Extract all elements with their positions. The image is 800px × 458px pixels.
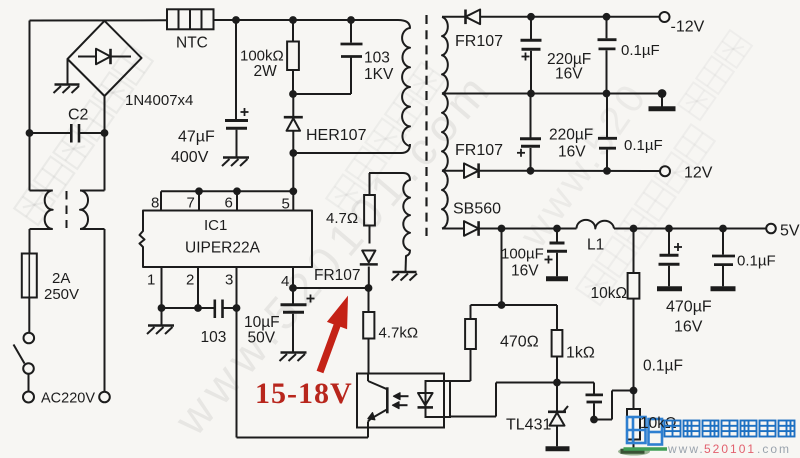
transformer secondary winding upper bbox=[442, 17, 448, 94]
label 2A bbox=[52, 270, 70, 287]
capacitor 103 (pins 2-3) bbox=[215, 300, 237, 319]
label 16V (100uF) bbox=[511, 263, 539, 280]
label NTC bbox=[176, 35, 208, 52]
wire top-left AC line bbox=[30, 20, 168, 133]
svg-text:400V: 400V bbox=[171, 149, 209, 166]
label 15-18V bbox=[255, 377, 353, 410]
wire ref to cap bbox=[557, 383, 594, 394]
label 400V bbox=[171, 149, 209, 166]
label 10kOhm (lower) bbox=[640, 415, 677, 432]
pin number 4 bbox=[281, 273, 289, 290]
ground (0.1uF 5V) bbox=[711, 286, 736, 291]
svg-text:12V: 12V bbox=[684, 165, 713, 182]
pin 1 stub bbox=[161, 267, 163, 308]
label 470uF bbox=[666, 299, 712, 316]
svg-text:10µF: 10µF bbox=[244, 314, 280, 331]
pin number 3 bbox=[225, 272, 233, 289]
node divider top bbox=[498, 301, 506, 309]
svg-text:IC1: IC1 bbox=[204, 217, 227, 234]
resistor 100k 2W bbox=[287, 42, 299, 71]
svg-text:-12V: -12V bbox=[671, 19, 705, 36]
node pin7 bbox=[195, 187, 203, 195]
label 103 (1KV) bbox=[364, 50, 390, 67]
label 220uF (-12V) bbox=[547, 51, 591, 68]
AC terminal left bbox=[23, 392, 34, 403]
ground (47uF) bbox=[222, 158, 249, 167]
wire left drop bbox=[30, 133, 53, 191]
terminal 5V bbox=[766, 224, 776, 234]
watermark url bbox=[667, 442, 791, 456]
node feedback cap bottom bbox=[590, 416, 598, 424]
node 5V takeoff bbox=[498, 225, 506, 233]
svg-text:250V: 250V bbox=[44, 286, 79, 303]
capacitor 47uF 400V bbox=[225, 108, 249, 128]
label 10kOhm (upper) bbox=[591, 285, 628, 302]
transformer secondary winding lower bbox=[442, 171, 448, 229]
terminal 12V bbox=[660, 166, 670, 176]
label 1N4007x4 bbox=[125, 92, 193, 109]
wire pin4 to FR107 node bbox=[293, 287, 369, 289]
wire pin1-pin2 link bbox=[162, 307, 215, 309]
wire pin1 to ground bbox=[161, 308, 163, 325]
diode SB560 bbox=[464, 221, 479, 236]
label 0.1uF (12V) bbox=[624, 137, 663, 154]
bridge rectifier 1N4007x4 bbox=[68, 21, 142, 96]
svg-text:16V: 16V bbox=[674, 319, 703, 336]
optocoupler LED bbox=[418, 381, 434, 417]
node 100uF 5V bbox=[553, 225, 561, 233]
resistor 10k (lower) bbox=[627, 391, 640, 450]
resistor 470R bbox=[450, 319, 476, 381]
capacitor 0.1uF (5V) bbox=[712, 229, 735, 287]
pin 2 stub bbox=[197, 267, 199, 308]
wire top bus bbox=[214, 19, 399, 21]
wire snubber link bbox=[293, 58, 351, 95]
wire drain to primary bbox=[293, 144, 410, 153]
svg-text:www.: www. bbox=[667, 442, 705, 456]
wire C2 left bbox=[30, 132, 72, 134]
wire bridge bottom bbox=[104, 96, 106, 133]
label 100uF bbox=[501, 246, 544, 263]
wire 0V rail bbox=[442, 93, 662, 95]
svg-text:2A: 2A bbox=[52, 270, 70, 287]
fuse 2A 250V bbox=[22, 254, 37, 298]
resistor 4.7R bbox=[364, 173, 375, 244]
svg-text:16V: 16V bbox=[558, 144, 586, 161]
node 0.1uF(-12V) bbox=[603, 13, 611, 21]
node pin3 cap bbox=[233, 304, 241, 312]
diode FR107 (12V) bbox=[464, 163, 479, 178]
svg-text:HER107: HER107 bbox=[306, 127, 367, 144]
label UIPER22A bbox=[185, 240, 261, 257]
common-mode choke right winding bbox=[80, 191, 88, 230]
label 0.1uF (feedback) bbox=[643, 358, 683, 375]
svg-text:520101: 520101 bbox=[704, 442, 756, 456]
label TL431 bbox=[506, 417, 551, 434]
wire 5V to divider bbox=[501, 229, 503, 306]
ground (10uF) bbox=[280, 353, 307, 362]
label 12V bbox=[684, 165, 713, 182]
node divider tap bbox=[630, 387, 638, 395]
wire -12V rail bbox=[480, 16, 659, 18]
diode HER107 bbox=[284, 94, 303, 153]
node 0.1uF 0V bbox=[603, 90, 611, 98]
svg-text:10kΩ: 10kΩ bbox=[640, 415, 677, 432]
node TL431 ref bbox=[553, 379, 561, 387]
capacitor 0.1uF (feedback) bbox=[586, 395, 604, 420]
svg-text:.com: .com bbox=[757, 442, 791, 456]
label 100kOhm bbox=[240, 48, 284, 65]
svg-text:10kΩ: 10kΩ bbox=[591, 285, 628, 302]
svg-text:3: 3 bbox=[225, 272, 233, 289]
label SB560 bbox=[453, 201, 501, 218]
svg-text:100µF: 100µF bbox=[501, 246, 544, 263]
node pin1 gnd bbox=[158, 304, 166, 312]
wire switch to AC terminal bbox=[28, 374, 30, 392]
svg-text:103: 103 bbox=[201, 329, 227, 346]
node 100k top bbox=[289, 16, 297, 24]
label 5V bbox=[780, 223, 800, 240]
svg-text:0.1µF: 0.1µF bbox=[737, 253, 776, 270]
svg-text:1KV: 1KV bbox=[364, 66, 394, 83]
capacitor 10uF 50V bbox=[281, 288, 315, 352]
wire pin5 riser bbox=[292, 153, 294, 191]
wire 47uF to ground bbox=[236, 130, 238, 157]
optocoupler body bbox=[357, 374, 444, 428]
pin 3 stub bbox=[236, 267, 238, 438]
ground (aux winding) bbox=[392, 272, 418, 281]
svg-text:L1: L1 bbox=[587, 237, 604, 254]
label 16V (-12V) bbox=[555, 66, 583, 83]
label 16V (12V) bbox=[558, 144, 586, 161]
label L1 bbox=[587, 237, 604, 254]
ground (10k lower) bbox=[618, 448, 650, 456]
svg-text:FR107: FR107 bbox=[314, 267, 361, 284]
watermark site name bbox=[665, 421, 795, 437]
svg-text:TL431: TL431 bbox=[506, 417, 551, 434]
node snubber bbox=[289, 90, 297, 98]
label 0.1uF (-12V) bbox=[621, 42, 660, 59]
node 220uF 12V bbox=[527, 167, 535, 175]
node vdd bbox=[365, 284, 373, 292]
pin number 2 bbox=[186, 272, 194, 289]
svg-text:FR107: FR107 bbox=[455, 142, 503, 159]
wire pin3 bottom run bbox=[237, 437, 369, 439]
svg-text:16V: 16V bbox=[555, 66, 583, 83]
resistor 10k (upper) bbox=[628, 229, 640, 391]
svg-text:NTC: NTC bbox=[176, 35, 208, 52]
ground (bridge) bbox=[54, 85, 80, 94]
svg-text:1: 1 bbox=[147, 272, 155, 289]
capacitor 220uF 16V (-12V) bbox=[521, 17, 542, 94]
node 0V gnd bbox=[658, 89, 667, 98]
svg-text:1N4007x4: 1N4007x4 bbox=[125, 92, 193, 109]
wire divider link bbox=[471, 305, 558, 330]
pin 4 stub bbox=[292, 267, 294, 288]
capacitor C2 bbox=[71, 124, 79, 143]
label 470Ohm bbox=[500, 334, 539, 351]
svg-text:1kΩ: 1kΩ bbox=[566, 345, 595, 362]
svg-text:AC220V: AC220V bbox=[41, 391, 95, 407]
label FR107 (12V) bbox=[455, 142, 503, 159]
switch blade bbox=[14, 345, 25, 364]
svg-text:8: 8 bbox=[151, 195, 159, 212]
label 10uF bbox=[244, 314, 280, 331]
switch terminal upper bbox=[24, 333, 35, 344]
svg-text:FR107: FR107 bbox=[455, 33, 503, 50]
switch terminal lower bbox=[23, 363, 34, 374]
transformer primary winding bbox=[398, 20, 410, 146]
AC terminal right bbox=[99, 392, 110, 403]
svg-text:0.1µF: 0.1µF bbox=[621, 42, 660, 59]
terminal -12V bbox=[660, 12, 670, 22]
node pin6 bbox=[233, 187, 241, 195]
wire 5V rail right bbox=[614, 228, 766, 230]
svg-text:C2: C2 bbox=[68, 107, 89, 124]
svg-text:470µF: 470µF bbox=[666, 299, 712, 316]
label -12V bbox=[671, 19, 705, 36]
wire 100k bottom bbox=[292, 70, 294, 94]
label FR107 (-12V) bbox=[455, 33, 503, 50]
label 16V (470uF) bbox=[674, 319, 703, 336]
label 1kOhm bbox=[566, 345, 595, 362]
choke core dashed line bbox=[66, 191, 68, 228]
svg-text:47µF: 47µF bbox=[178, 129, 215, 146]
label 0.1uF (5V) bbox=[737, 253, 776, 270]
diode FR107 (aux) bbox=[360, 251, 378, 289]
node pin2 bbox=[194, 304, 202, 312]
svg-text:50V: 50V bbox=[248, 330, 276, 347]
svg-text:SB560: SB560 bbox=[453, 201, 501, 218]
wire bridge to ground bbox=[67, 60, 69, 85]
svg-text:2W: 2W bbox=[254, 63, 278, 80]
op-amp IC1 UIPER22A box bbox=[140, 211, 313, 268]
label 2W bbox=[254, 63, 278, 80]
pin 7 stub bbox=[198, 191, 200, 210]
wire 0V to ground bbox=[661, 94, 663, 108]
svg-text:100kΩ: 100kΩ bbox=[240, 48, 284, 65]
capacitor 470uF 16V bbox=[659, 229, 683, 287]
svg-text:15-18V: 15-18V bbox=[255, 377, 353, 410]
resistor 1k bbox=[552, 330, 563, 383]
wire 47uF drop bbox=[235, 20, 237, 119]
capacitor 0.1uF (-12V) bbox=[598, 17, 617, 94]
wire secondary to FR107 top bbox=[442, 16, 466, 18]
pin 6 stub bbox=[236, 191, 238, 210]
pin number 8 bbox=[151, 195, 159, 212]
transformer auxiliary winding bbox=[369, 173, 410, 272]
node pin4 bbox=[289, 284, 297, 292]
ground (TL431) bbox=[546, 446, 570, 451]
label 4.7kOhm bbox=[379, 325, 419, 342]
pin 5 stub bbox=[292, 191, 294, 210]
node 470uF 5V bbox=[665, 225, 673, 233]
wire IC top bus bbox=[161, 190, 293, 192]
inductor L1 bbox=[577, 220, 615, 229]
node 0.1uF 12V bbox=[603, 167, 611, 175]
node drain bbox=[289, 149, 297, 157]
svg-text:103: 103 bbox=[364, 50, 390, 67]
label C2 bbox=[68, 107, 89, 124]
wire C2 right bbox=[79, 132, 105, 134]
optocoupler arrows bbox=[393, 393, 409, 409]
optocoupler phototransistor bbox=[368, 374, 387, 438]
wire fuse to switch bbox=[28, 298, 30, 333]
node 220uF(-12V) bbox=[527, 13, 535, 21]
wire secondary to SB560 bbox=[442, 228, 464, 230]
wire choke right bottom bbox=[80, 229, 105, 392]
svg-text:UIPER22A: UIPER22A bbox=[185, 240, 261, 257]
wire right drop bbox=[80, 133, 105, 191]
resistor 4.7k bbox=[363, 288, 374, 374]
svg-text:0.1µF: 0.1µF bbox=[643, 358, 683, 375]
label HER107 bbox=[306, 127, 367, 144]
node 47uF top bbox=[232, 16, 240, 24]
node 10k 5V bbox=[630, 225, 638, 233]
wire 100k top bbox=[292, 20, 294, 42]
label IC1 bbox=[204, 217, 227, 234]
node C2 right bbox=[101, 129, 109, 137]
wire divider tap zigzag bbox=[594, 391, 634, 420]
node pin5 bbox=[289, 187, 297, 195]
wire secondary to FR107 mid bbox=[442, 170, 464, 172]
node 220uF 0V bbox=[527, 90, 535, 98]
svg-text:220µF: 220µF bbox=[549, 127, 593, 144]
label 47uF bbox=[178, 129, 215, 146]
label 103 (pins 2-3) bbox=[201, 329, 227, 346]
capacitor 100uF 16V bbox=[545, 229, 568, 277]
svg-text:4.7Ω: 4.7Ω bbox=[326, 210, 358, 227]
node 103 top bbox=[347, 16, 355, 24]
label 4.7Ohm bbox=[326, 210, 358, 227]
pin number 7 bbox=[187, 195, 195, 212]
pin number 5 bbox=[282, 196, 290, 213]
pin 8 stub bbox=[160, 191, 162, 210]
transformer secondary winding middle bbox=[442, 94, 448, 171]
svg-text:4: 4 bbox=[281, 273, 289, 290]
label 220uF (12V) bbox=[549, 127, 593, 144]
label AC220V bbox=[41, 391, 95, 407]
thermistor NTC bbox=[167, 9, 214, 29]
node C2 left bbox=[26, 129, 34, 137]
optocoupler LED box bbox=[426, 381, 451, 417]
svg-text:6: 6 bbox=[225, 195, 233, 212]
svg-text:16V: 16V bbox=[511, 263, 539, 280]
label 250V bbox=[44, 286, 79, 303]
svg-text:4.7kΩ: 4.7kΩ bbox=[379, 325, 419, 342]
transformer core dashed line bbox=[425, 15, 427, 236]
diode FR107 (-12V) bbox=[466, 10, 481, 25]
svg-text:7: 7 bbox=[187, 195, 195, 212]
wire choke left bottom bbox=[30, 229, 53, 254]
wire ref to opto bbox=[450, 383, 557, 417]
pin number 1 bbox=[147, 272, 155, 289]
svg-text:0.1µF: 0.1µF bbox=[624, 137, 663, 154]
capacitor 103 1KV bbox=[341, 20, 363, 57]
common-mode choke left winding bbox=[45, 191, 53, 230]
red arrow 15-18V bbox=[317, 296, 348, 374]
wire 12V rail bbox=[479, 170, 660, 172]
ground (470uF) bbox=[657, 286, 682, 291]
svg-text:5V: 5V bbox=[780, 223, 800, 240]
node 0.1uF 5V bbox=[719, 225, 727, 233]
label 50V bbox=[248, 330, 276, 347]
ground (100uF) bbox=[546, 276, 568, 281]
ground (0V rail) bbox=[649, 106, 676, 111]
svg-text:470Ω: 470Ω bbox=[500, 334, 539, 351]
capacitor 0.1uF (12V) bbox=[598, 94, 617, 171]
pin number 6 bbox=[225, 195, 233, 212]
transistor TL431 bbox=[548, 383, 568, 447]
label FR107 (aux) bbox=[314, 267, 361, 284]
ground (IC pin1) bbox=[147, 326, 174, 335]
watermark logo bbox=[624, 417, 668, 449]
wire 5V rail left bbox=[479, 228, 577, 230]
label 1KV bbox=[364, 66, 394, 83]
capacitor 220uF 16V (12V) bbox=[517, 94, 541, 171]
svg-text:2: 2 bbox=[186, 272, 194, 289]
